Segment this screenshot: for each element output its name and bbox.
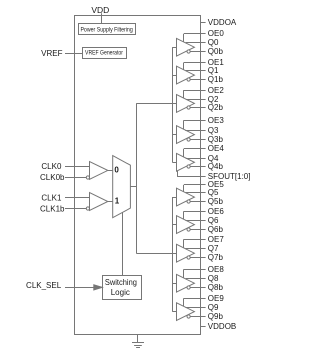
- svg-text:Switching: Switching: [105, 278, 137, 287]
- svg-text:VREF: VREF: [41, 49, 62, 58]
- svg-text:Q5b: Q5b: [208, 197, 224, 206]
- svg-text:Q9b: Q9b: [208, 312, 224, 321]
- svg-text:Power Supply Filtering: Power Supply Filtering: [80, 27, 133, 34]
- svg-text:OE2: OE2: [208, 86, 225, 95]
- svg-text:Q3b: Q3b: [208, 135, 224, 144]
- svg-text:Q1: Q1: [208, 66, 219, 75]
- svg-text:Q5: Q5: [208, 188, 219, 197]
- svg-text:Q9: Q9: [208, 303, 219, 312]
- svg-text:OE0: OE0: [208, 29, 225, 38]
- svg-text:Q4b: Q4b: [208, 162, 224, 171]
- svg-text:Q0: Q0: [208, 38, 219, 47]
- svg-text:Q0b: Q0b: [208, 47, 224, 56]
- svg-text:OE7: OE7: [208, 235, 225, 244]
- svg-text:Q1b: Q1b: [208, 75, 224, 84]
- svg-text:CLK1: CLK1: [41, 193, 62, 202]
- svg-text:1: 1: [115, 196, 120, 205]
- svg-text:CLK_SEL: CLK_SEL: [26, 281, 62, 290]
- svg-text:OE4: OE4: [208, 144, 225, 153]
- svg-text:VDDOA: VDDOA: [208, 18, 237, 27]
- svg-text:OE3: OE3: [208, 116, 225, 125]
- svg-text:OE6: OE6: [208, 207, 225, 216]
- svg-text:Logic: Logic: [111, 288, 130, 297]
- svg-text:Q7b: Q7b: [208, 253, 224, 262]
- svg-text:OE8: OE8: [208, 265, 225, 274]
- svg-text:CLK0b: CLK0b: [40, 173, 65, 182]
- svg-text:Q3: Q3: [208, 126, 219, 135]
- svg-text:0: 0: [114, 166, 119, 175]
- svg-text:OE9: OE9: [208, 294, 225, 303]
- svg-text:VDD: VDD: [91, 5, 109, 15]
- svg-text:VREF Generator: VREF Generator: [85, 51, 123, 57]
- svg-text:Q6b: Q6b: [208, 225, 224, 234]
- svg-text:Q6: Q6: [208, 216, 219, 225]
- svg-text:Q8: Q8: [208, 274, 219, 283]
- svg-text:VDDOB: VDDOB: [208, 322, 236, 331]
- svg-text:Q8b: Q8b: [208, 283, 224, 292]
- svg-text:Q2b: Q2b: [208, 103, 224, 112]
- svg-text:Q7: Q7: [208, 244, 219, 253]
- svg-text:CLK1b: CLK1b: [40, 204, 65, 213]
- svg-text:CLK0: CLK0: [41, 162, 62, 171]
